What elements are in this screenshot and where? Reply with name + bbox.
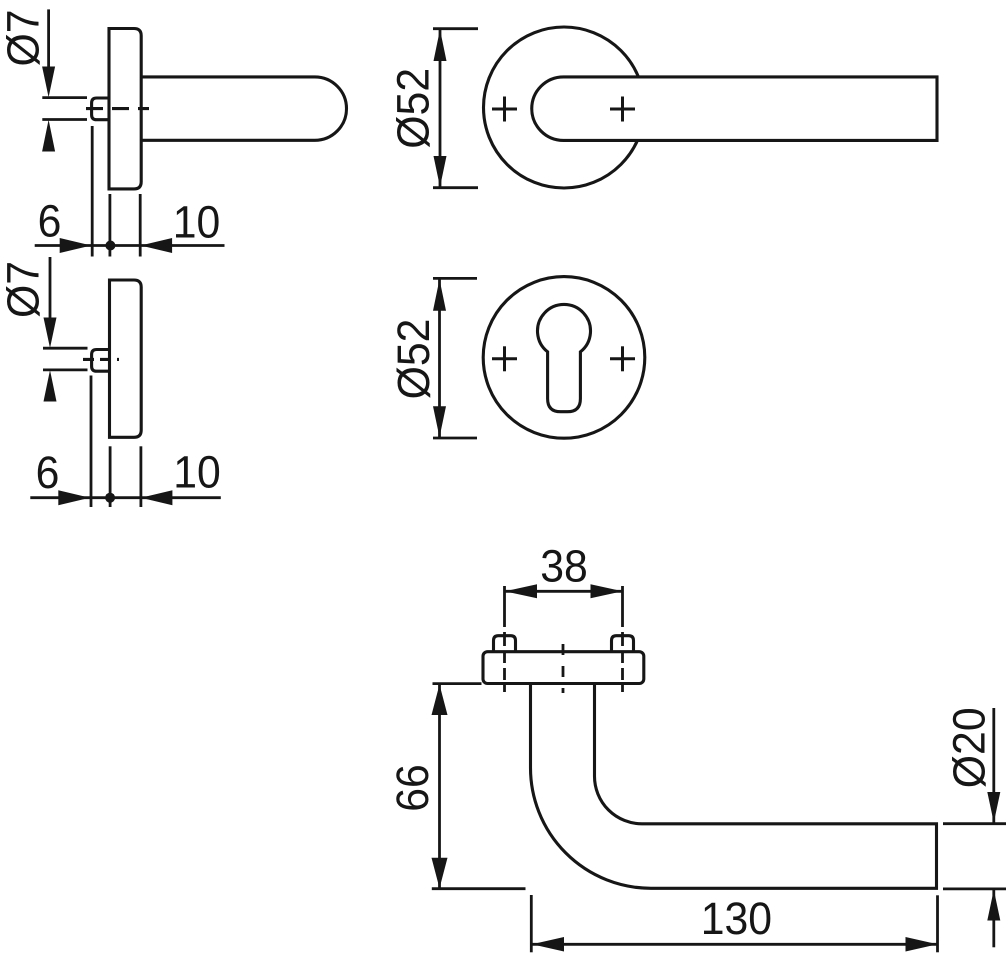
svg-text:10: 10	[173, 448, 221, 498]
svg-text:130: 130	[701, 894, 772, 944]
svg-text:66: 66	[388, 764, 438, 812]
svg-text:Ø52: Ø52	[388, 68, 438, 149]
svg-text:10: 10	[173, 198, 221, 248]
svg-text:Ø52: Ø52	[389, 319, 439, 400]
svg-text:Ø20: Ø20	[945, 707, 995, 788]
svg-text:6: 6	[38, 197, 62, 247]
svg-text:Ø7: Ø7	[0, 9, 49, 66]
svg-text:Ø7: Ø7	[0, 261, 49, 318]
svg-text:38: 38	[540, 542, 588, 592]
svg-text:6: 6	[36, 448, 60, 498]
